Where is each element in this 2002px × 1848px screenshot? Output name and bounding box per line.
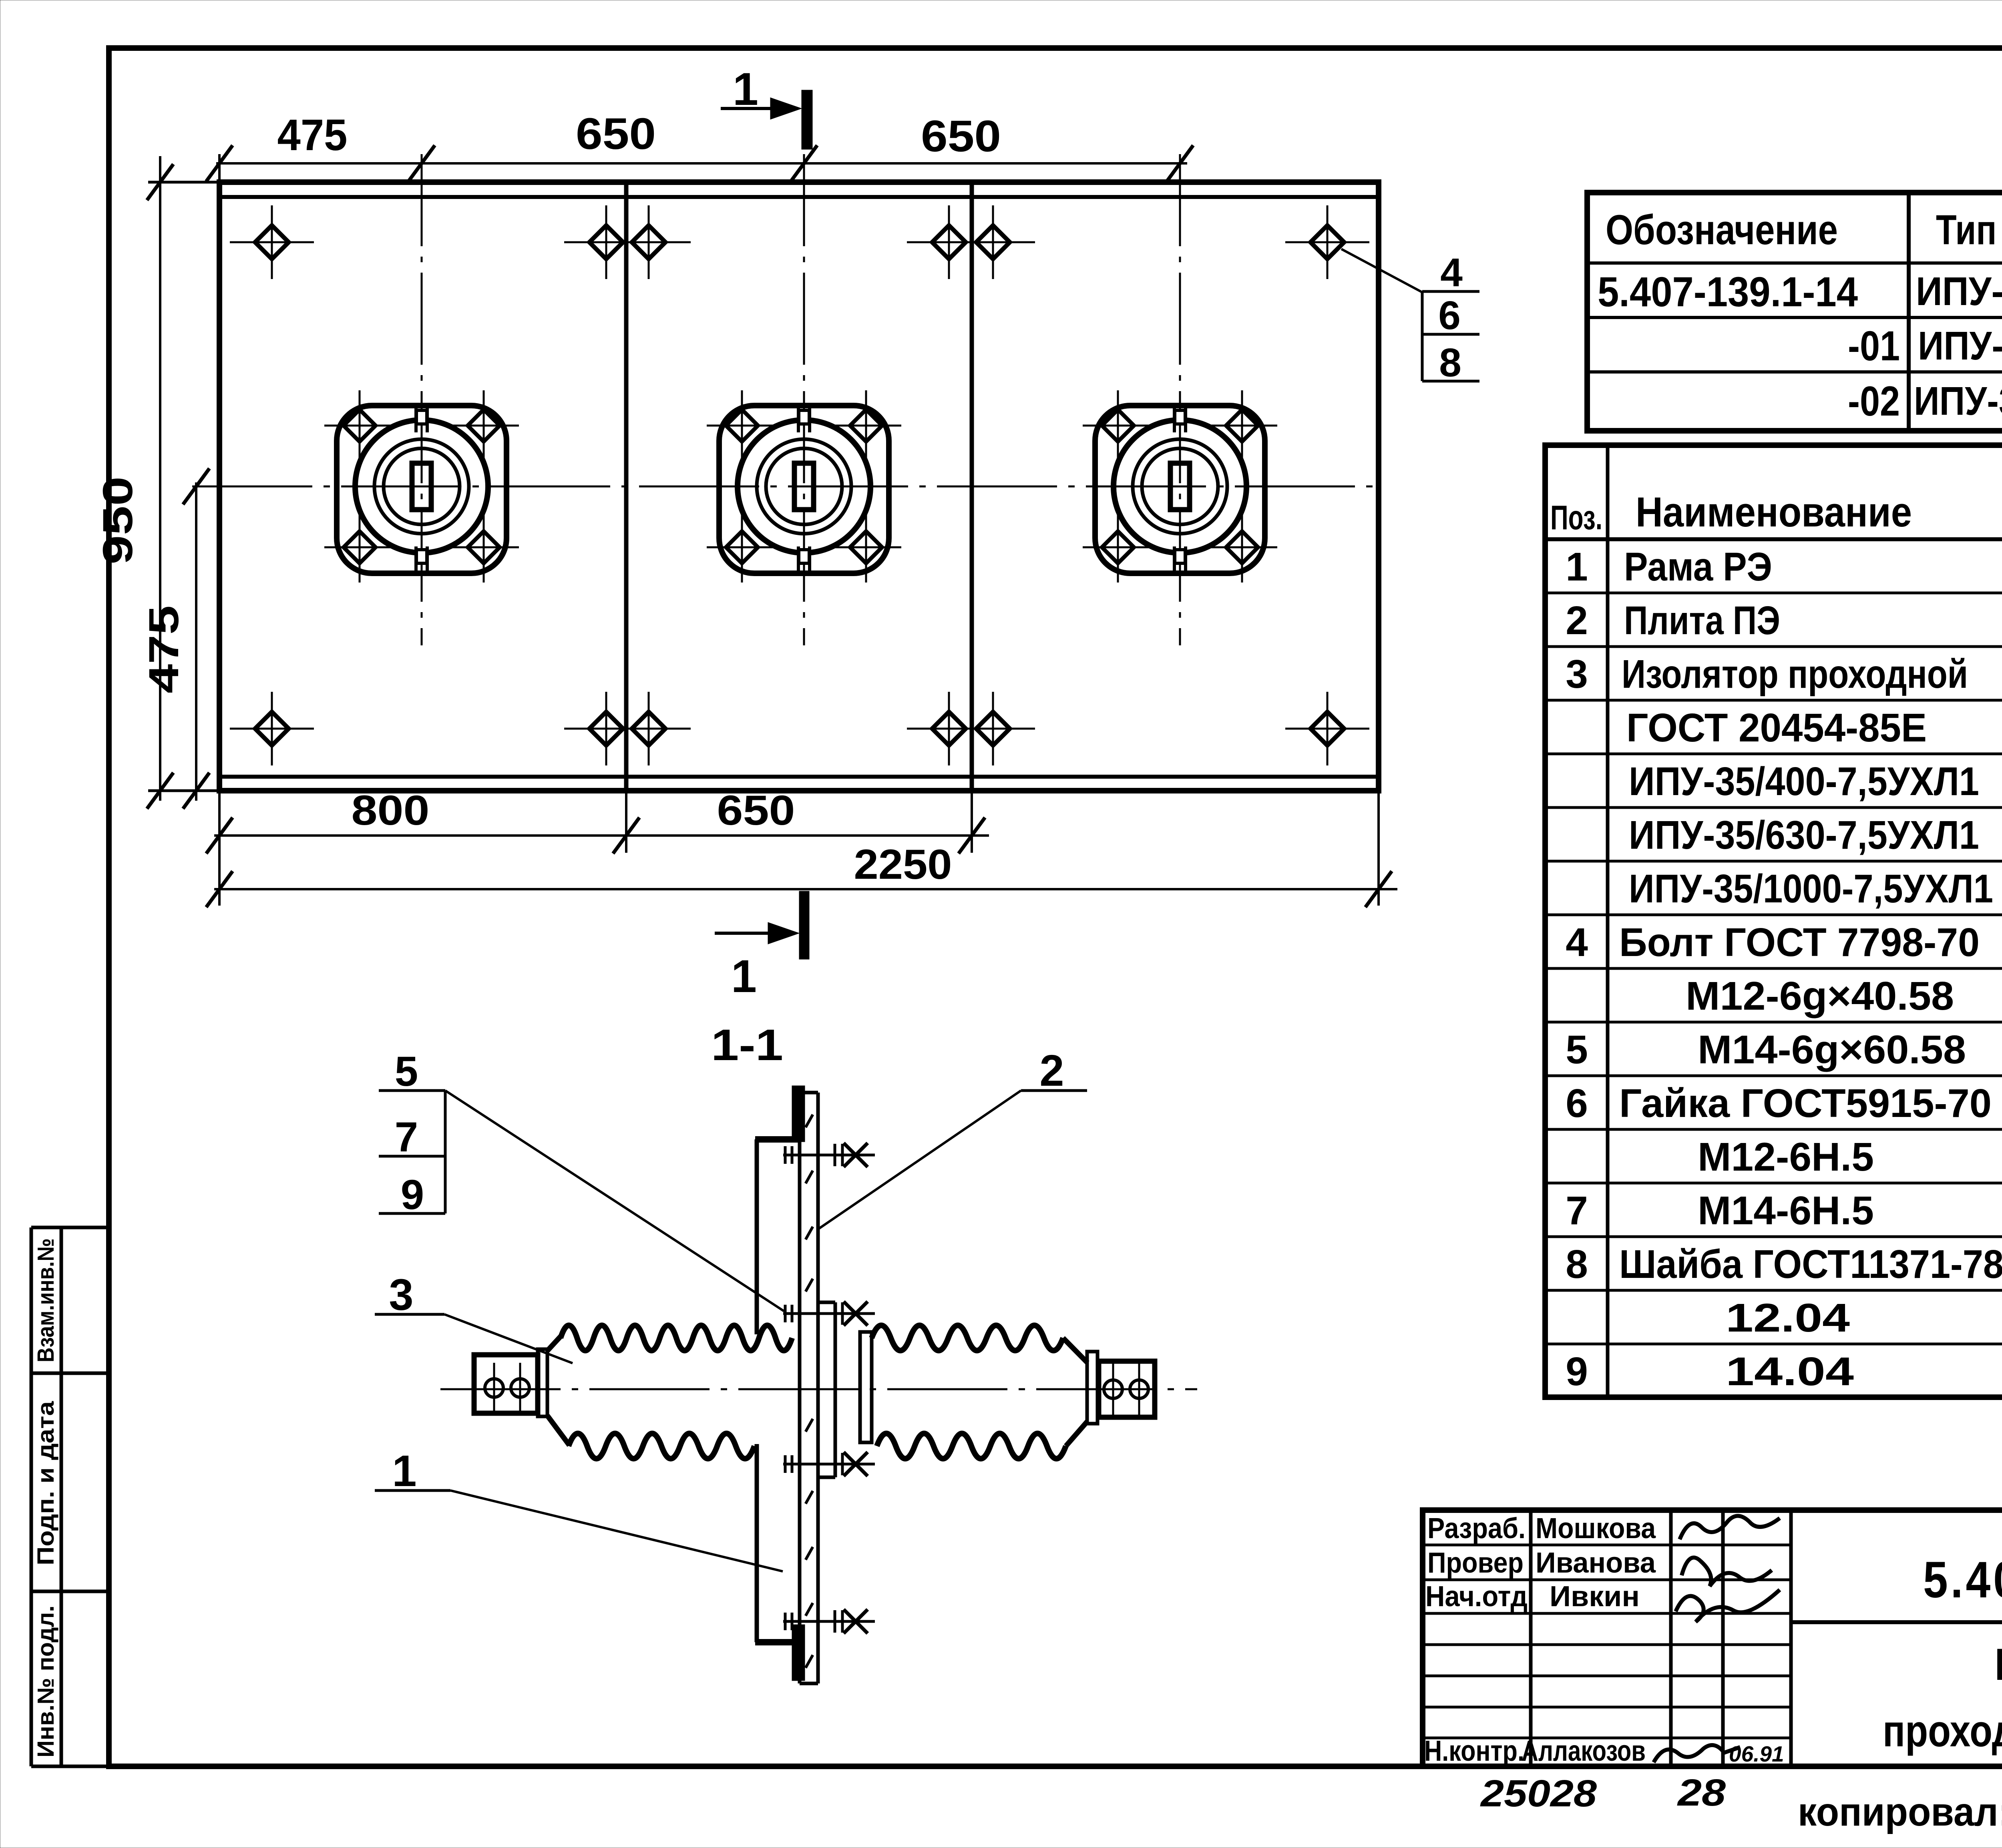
- svg-text:5.407-139.1-14: 5.407-139.1-14: [1598, 269, 1858, 315]
- svg-text:Гайка ГОСТ5915-70: Гайка ГОСТ5915-70: [1619, 1081, 1992, 1126]
- svg-text:Наименование: Наименование: [1636, 489, 1912, 536]
- svg-text:7: 7: [1566, 1188, 1588, 1233]
- svg-text:копировал: Барковская: копировал: Барковская: [1798, 1790, 2002, 1834]
- svg-text:06.91: 06.91: [1729, 1742, 1784, 1766]
- svg-text:Рама РЭ: Рама РЭ: [1624, 544, 1772, 589]
- svg-text:Провер: Провер: [1427, 1547, 1524, 1579]
- svg-text:Поз.: Поз.: [1550, 499, 1602, 537]
- svg-text:ИПУ-35/1000-7,5УХЛ1: ИПУ-35/1000-7,5УХЛ1: [1914, 379, 2002, 424]
- svg-text:650: 650: [921, 112, 1001, 161]
- svg-text:14.04: 14.04: [1726, 1349, 1854, 1394]
- svg-text:Аллакозов: Аллакозов: [1522, 1735, 1646, 1767]
- svg-text:Разраб.: Разраб.: [1427, 1513, 1526, 1545]
- svg-text:950: 950: [94, 476, 141, 564]
- svg-text:Плита ПЭ: Плита ПЭ: [1624, 598, 1780, 643]
- svg-text:2: 2: [1039, 1046, 1064, 1095]
- svg-text:4: 4: [1566, 920, 1588, 965]
- svg-text:650: 650: [576, 109, 656, 159]
- svg-text:650: 650: [717, 787, 795, 834]
- svg-text:М12-6g×40.58: М12-6g×40.58: [1686, 974, 1954, 1018]
- svg-text:ИПУ-35/400-7,5УХЛ1: ИПУ-35/400-7,5УХЛ1: [1629, 759, 1979, 804]
- svg-text:475: 475: [277, 110, 348, 160]
- svg-text:9: 9: [401, 1171, 424, 1218]
- svg-text:М14-6g×60.58: М14-6g×60.58: [1698, 1027, 1966, 1072]
- svg-text:Иванова: Иванова: [1536, 1547, 1656, 1579]
- svg-text:Плита: Плита: [1995, 1639, 2002, 1689]
- svg-text:2250: 2250: [854, 841, 952, 888]
- svg-text:ИПУ-35/1000-7,5УХЛ1: ИПУ-35/1000-7,5УХЛ1: [1629, 866, 1993, 911]
- svg-text:800: 800: [352, 787, 430, 834]
- svg-text:Инв.№ подл.: Инв.№ подл.: [33, 1605, 59, 1758]
- svg-text:5: 5: [1566, 1027, 1588, 1072]
- svg-text:4: 4: [1440, 250, 1463, 295]
- svg-text:-01: -01: [1848, 323, 1900, 370]
- svg-text:ИПУ-35/630-7,5УХЛ1: ИПУ-35/630-7,5УХЛ1: [1918, 323, 2002, 368]
- svg-text:6: 6: [1566, 1081, 1588, 1126]
- svg-text:12.04: 12.04: [1726, 1296, 1850, 1340]
- svg-text:25028: 25028: [1480, 1772, 1597, 1815]
- svg-text:3: 3: [1566, 652, 1588, 697]
- svg-text:Ивкин: Ивкин: [1550, 1581, 1640, 1613]
- svg-text:М12-6Н.5: М12-6Н.5: [1698, 1135, 1874, 1179]
- svg-text:5: 5: [395, 1048, 418, 1095]
- svg-text:9: 9: [1566, 1349, 1588, 1394]
- svg-text:8: 8: [1439, 340, 1461, 385]
- svg-text:-02: -02: [1848, 378, 1900, 425]
- svg-text:1-1: 1-1: [711, 1020, 783, 1070]
- svg-text:1: 1: [733, 64, 758, 115]
- svg-text:1: 1: [392, 1446, 416, 1496]
- svg-text:Подп. и дата: Подп. и дата: [33, 1401, 59, 1565]
- svg-text:ГОСТ 20454-85Е: ГОСТ 20454-85Е: [1626, 705, 1927, 750]
- svg-text:Обозначение: Обозначение: [1606, 207, 1838, 253]
- svg-text:Нач.отд: Нач.отд: [1425, 1581, 1528, 1613]
- svg-text:Взам.инв.№: Взам.инв.№: [33, 1238, 59, 1362]
- svg-text:Тип изолятора: Тип изолятора: [1936, 207, 2002, 253]
- svg-text:Н.контр.: Н.контр.: [1424, 1735, 1524, 1767]
- svg-text:Шайба ГОСТ11371-78: Шайба ГОСТ11371-78: [1619, 1242, 2002, 1287]
- svg-text:Изолятор проходной: Изолятор проходной: [1622, 652, 1968, 697]
- svg-text:5.407-139.1-14: 5.407-139.1-14: [1923, 1551, 2002, 1609]
- svg-text:ИПУ-35/630-7,5УХЛ1: ИПУ-35/630-7,5УХЛ1: [1629, 813, 1979, 858]
- svg-text:ИПУ-35/400-7,5УХЛ1: ИПУ-35/400-7,5УХЛ1: [1916, 269, 2002, 314]
- svg-text:28: 28: [1677, 1772, 1726, 1814]
- svg-text:проходная ППЭ: проходная ППЭ: [1883, 1706, 2002, 1756]
- svg-text:8: 8: [1566, 1242, 1588, 1287]
- svg-text:Болт ГОСТ 7798-70: Болт ГОСТ 7798-70: [1619, 920, 1980, 965]
- svg-text:6: 6: [1438, 293, 1461, 338]
- svg-text:3: 3: [389, 1270, 413, 1320]
- svg-text:М14-6Н.5: М14-6Н.5: [1698, 1188, 1874, 1233]
- svg-text:1: 1: [1566, 544, 1588, 589]
- svg-text:475: 475: [141, 605, 187, 693]
- svg-text:1: 1: [731, 951, 757, 1002]
- svg-text:Мошкова: Мошкова: [1536, 1513, 1656, 1545]
- svg-text:2: 2: [1566, 598, 1588, 643]
- svg-text:7: 7: [395, 1114, 418, 1161]
